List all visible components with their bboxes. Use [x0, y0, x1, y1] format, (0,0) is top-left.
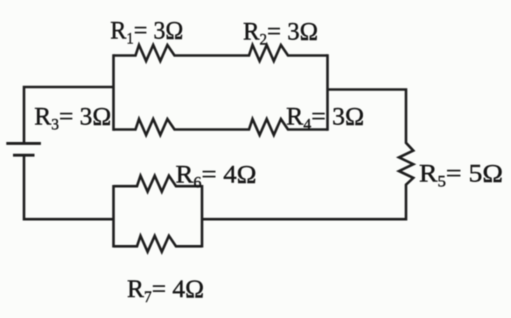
svg-text:R7= 4Ω: R7= 4Ω [127, 274, 204, 306]
svg-text:R3= 3Ω: R3= 3Ω [34, 102, 111, 134]
svg-text:R2= 3Ω: R2= 3Ω [243, 16, 318, 48]
svg-text:R4= 3Ω: R4= 3Ω [286, 102, 364, 134]
svg-text:R1= 3Ω: R1= 3Ω [110, 16, 183, 48]
svg-text:R5= 5Ω: R5= 5Ω [419, 159, 503, 191]
svg-text:R6= 4Ω: R6= 4Ω [176, 160, 257, 192]
